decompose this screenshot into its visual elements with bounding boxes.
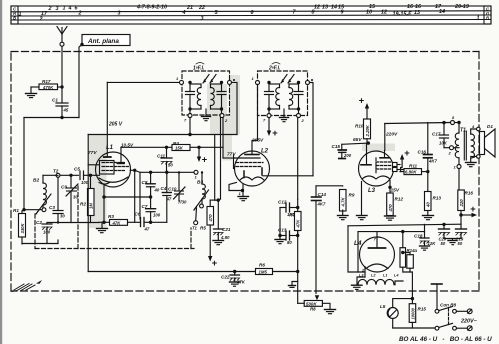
svg-text:C17: C17 bbox=[432, 132, 441, 137]
svg-text:470: 470 bbox=[388, 204, 393, 213]
resistor R11 bbox=[400, 164, 428, 175]
svg-text:1ᵉF.I.: 1ᵉF.I. bbox=[193, 66, 204, 72]
svg-text:100: 100 bbox=[81, 180, 89, 185]
capacitor C6 (series) bbox=[135, 212, 151, 232]
gray inside 1st IF right half bbox=[207, 84, 227, 116]
dial strip numbers row2 bbox=[19, 9, 446, 17]
grid box bbox=[100, 161, 115, 175]
speaker D1 bbox=[471, 124, 495, 159]
svg-text:14: 14 bbox=[439, 9, 445, 15]
wire antenna bus to left bbox=[24, 116, 79, 210]
svg-text:B2: B2 bbox=[33, 178, 39, 184]
IF1 internal ground bbox=[202, 109, 211, 121]
resistor R7 bbox=[289, 199, 301, 234]
heater ground bbox=[352, 285, 363, 289]
svg-text:7: 7 bbox=[184, 118, 187, 123]
cathode bbox=[362, 176, 390, 179]
IF1 terminal 2 bbox=[220, 114, 228, 124]
wave switch on B2 bbox=[36, 194, 51, 214]
resistor R4 bbox=[172, 141, 190, 151]
svg-text:R6: R6 bbox=[259, 263, 265, 268]
svg-text:R11: R11 bbox=[409, 164, 418, 169]
terminal 2 (output) bbox=[448, 146, 460, 156]
C18 ground bbox=[420, 246, 430, 250]
IF2 terminal 7 bbox=[263, 114, 271, 123]
B+ arrow right bbox=[461, 204, 477, 217]
L3 cathode ground bbox=[357, 216, 368, 220]
terminal T2 bbox=[53, 169, 60, 178]
svg-text:+: + bbox=[212, 258, 218, 269]
svg-text:470: 470 bbox=[208, 214, 213, 223]
svg-text:45: 45 bbox=[63, 108, 69, 113]
capacitor C15 bbox=[332, 144, 352, 159]
svg-text:30: 30 bbox=[60, 214, 65, 219]
svg-text:Ant. plana: Ant. plana bbox=[87, 38, 119, 45]
capacitor C20 bbox=[439, 224, 450, 246]
switch on B3 bbox=[194, 190, 209, 210]
wire L2 diode pin to x313 bbox=[263, 175, 313, 177]
resistor R3 bbox=[105, 214, 141, 225]
svg-text:10: 10 bbox=[366, 9, 372, 15]
svg-text:65V: 65V bbox=[353, 137, 362, 143]
svg-text:R9: R9 bbox=[349, 193, 355, 198]
svg-text:9: 9 bbox=[341, 9, 344, 15]
dial strip numbers row1 bbox=[48, 4, 469, 12]
svg-text:470K: 470K bbox=[42, 85, 54, 90]
svg-text:10K: 10K bbox=[439, 141, 448, 146]
svg-text:2: 2 bbox=[39, 16, 43, 22]
svg-text:2: 2 bbox=[78, 11, 82, 17]
svg-text:330K: 330K bbox=[20, 223, 25, 234]
svg-text:40: 40 bbox=[154, 188, 160, 193]
terminal T1 bbox=[192, 208, 198, 231]
svg-text:4.7K: 4.7K bbox=[341, 197, 346, 208]
grids bbox=[102, 163, 129, 171]
IF1 primary coil bbox=[190, 84, 201, 109]
svg-text:C3: C3 bbox=[49, 205, 55, 210]
wire IF2-8 down to L2 bbox=[310, 83, 314, 176]
svg-text:50: 50 bbox=[441, 241, 446, 246]
node wire R7 bottom down bbox=[296, 231, 299, 304]
C21 ground bbox=[213, 241, 224, 245]
L2 cathode ground bbox=[238, 197, 249, 201]
capacitor C21 bbox=[214, 200, 231, 240]
gray strip around L1 stage bbox=[89, 134, 107, 228]
IF transformer T-IF1 box bbox=[182, 63, 230, 116]
svg-text:1: 1 bbox=[63, 6, 66, 12]
capacitor C12 bbox=[278, 200, 299, 218]
plate bbox=[245, 154, 259, 156]
bottom electrode marks bbox=[243, 171, 245, 178]
svg-text:L4: L4 bbox=[394, 274, 399, 278]
svg-text:80: 80 bbox=[287, 240, 292, 245]
dashed gang linkage bbox=[35, 186, 194, 249]
IF2 trimmer arrows bbox=[281, 75, 294, 84]
wire IF2 terminal1 to L2 plate bbox=[252, 85, 258, 152]
IF transformer T-IF2 box bbox=[258, 63, 308, 116]
mains terminal top bbox=[467, 309, 472, 314]
switch gang dashed link bbox=[448, 309, 450, 327]
svg-text:7/30: 7/30 bbox=[178, 200, 187, 205]
mains terminal bottom bbox=[467, 326, 472, 331]
svg-text:L2: L2 bbox=[371, 274, 376, 278]
svg-text:C5: C5 bbox=[74, 167, 80, 172]
svg-text:8: 8 bbox=[452, 115, 455, 120]
dial strip numbers row3 bbox=[39, 16, 480, 23]
svg-text:R17: R17 bbox=[42, 79, 51, 84]
svg-text:C15: C15 bbox=[332, 144, 341, 149]
svg-text:10000: 10000 bbox=[410, 307, 415, 319]
IF1 terminal 8 bbox=[228, 79, 236, 84]
svg-text:B: B bbox=[486, 15, 489, 20]
wire IF2-2 down to detector load bbox=[297, 118, 299, 200]
svg-text:R5: R5 bbox=[200, 226, 206, 231]
svg-text:+: + bbox=[272, 128, 278, 139]
svg-text:R8: R8 bbox=[310, 307, 316, 312]
wire L1 right pin down bbox=[134, 170, 136, 222]
svg-text:L1: L1 bbox=[106, 145, 114, 151]
svg-text:6.80K: 6.80K bbox=[405, 170, 417, 175]
svg-text:L5: L5 bbox=[380, 304, 386, 309]
electrodes bbox=[361, 164, 371, 166]
ground (R17) bbox=[26, 94, 37, 98]
resistor R6 bbox=[256, 263, 273, 275]
AVC bottom wire bbox=[88, 270, 298, 273]
svg-text:4: 4 bbox=[471, 124, 475, 129]
wire L4 box left bbox=[358, 232, 377, 272]
svg-text:R15: R15 bbox=[418, 307, 427, 312]
signature squiggle bbox=[12, 280, 42, 292]
svg-text:47: 47 bbox=[166, 197, 172, 202]
resistor R12 bbox=[387, 193, 404, 216]
cathode bbox=[99, 177, 128, 182]
IF2 internal ground bbox=[280, 109, 289, 122]
resistor R14a bbox=[401, 251, 413, 299]
C22 ground bbox=[230, 282, 241, 286]
svg-text:4-7-8-9-2-10: 4-7-8-9-2-10 bbox=[136, 5, 167, 11]
svg-text:2: 2 bbox=[448, 151, 452, 156]
svg-text:2: 2 bbox=[48, 6, 52, 12]
svg-text:1: 1 bbox=[176, 76, 179, 81]
svg-text:16: 16 bbox=[407, 4, 414, 10]
IF2 secondary coil bbox=[289, 84, 299, 109]
resistor R14 bbox=[400, 232, 418, 268]
R8 ground bbox=[325, 310, 336, 314]
tube L3 bbox=[359, 151, 405, 216]
svg-text:+: + bbox=[470, 204, 476, 215]
svg-text:19-15-F: 19-15-F bbox=[393, 12, 413, 18]
terminal 8 (output) bbox=[451, 115, 460, 125]
IF2 primary capacitor bbox=[265, 81, 274, 114]
svg-text:R2: R2 bbox=[80, 202, 86, 207]
svg-text:C1: C1 bbox=[52, 98, 58, 103]
capacitor C16 bbox=[418, 123, 438, 192]
capacitor C18 bbox=[414, 224, 436, 246]
svg-text:100: 100 bbox=[43, 230, 51, 235]
svg-text:1: 1 bbox=[477, 16, 480, 22]
svg-text:B: B bbox=[13, 15, 16, 20]
svg-text:13: 13 bbox=[322, 4, 328, 10]
capacitor C5 (grid coupling) bbox=[69, 167, 95, 186]
wire L4 plate top bbox=[377, 230, 425, 238]
IF1 primary capacitor bbox=[186, 81, 195, 114]
resistor R15 bbox=[409, 304, 426, 328]
IF1 feed wire from top right bbox=[232, 82, 238, 134]
svg-text:1M5: 1M5 bbox=[259, 270, 268, 275]
tube L2 bbox=[227, 149, 270, 197]
capacitor C1 bbox=[52, 86, 69, 118]
svg-text:R10: R10 bbox=[355, 124, 364, 129]
IF2 secondary capacitor bbox=[294, 81, 303, 114]
diode plates bbox=[393, 163, 398, 167]
wire 220V rail bbox=[385, 121, 461, 151]
svg-text:1: 1 bbox=[252, 76, 255, 81]
switch bottom pole bbox=[393, 323, 467, 330]
IF1 secondary coil bbox=[211, 84, 222, 109]
coil B2 bbox=[33, 175, 58, 211]
svg-text:2: 2 bbox=[301, 118, 305, 123]
svg-text:13: 13 bbox=[414, 10, 420, 16]
grids bbox=[235, 157, 260, 159]
capacitor C17 bbox=[432, 123, 450, 148]
svg-text:12K: 12K bbox=[428, 241, 437, 246]
svg-text:1: 1 bbox=[239, 191, 242, 196]
resistor R10 bbox=[355, 119, 371, 143]
resistor R2 bbox=[80, 175, 94, 222]
B+ arrow above R10 bbox=[359, 96, 370, 120]
C13 ground bbox=[275, 240, 285, 244]
svg-text:220V~: 220V~ bbox=[460, 319, 478, 325]
wire from Ant. plana down bbox=[79, 45, 82, 118]
svg-text:4: 4 bbox=[182, 10, 186, 16]
svg-text:L3: L3 bbox=[368, 188, 376, 194]
terminal 1 (below T1) bbox=[454, 165, 462, 191]
svg-text:C9: C9 bbox=[61, 185, 67, 190]
L1 cathode ground bbox=[97, 221, 108, 233]
svg-text:R1: R1 bbox=[13, 208, 19, 213]
svg-text:47: 47 bbox=[144, 227, 150, 232]
svg-text:+: + bbox=[202, 155, 208, 166]
switch (Con R8) top pole bbox=[435, 303, 467, 314]
heater chain bbox=[357, 272, 403, 285]
svg-text:40: 40 bbox=[426, 202, 431, 208]
svg-text:R16: R16 bbox=[465, 191, 474, 196]
capacitor C19 bbox=[456, 224, 467, 246]
tube L1 bbox=[88, 143, 136, 223]
B+ arrow near R11 bbox=[400, 148, 410, 172]
oscillator top rail bbox=[135, 170, 198, 219]
bottom pins bbox=[361, 182, 363, 216]
gray below 1st IF bbox=[210, 116, 239, 135]
svg-text:205 V: 205 V bbox=[108, 122, 123, 128]
transformer T1 bbox=[455, 123, 476, 165]
svg-text:D1: D1 bbox=[487, 124, 493, 129]
tube L4 bbox=[354, 237, 395, 273]
chassis stub on R7 line bbox=[289, 282, 298, 288]
Ant. plana label box bbox=[80, 35, 130, 47]
IF1 secondary capacitor bbox=[217, 81, 226, 114]
T1 secondary ground bbox=[466, 163, 477, 167]
trimmer C9 bbox=[61, 175, 78, 222]
wire T2 to C5 bbox=[60, 174, 79, 176]
capacitor C8 bbox=[142, 172, 160, 197]
svg-text:220: 220 bbox=[459, 199, 464, 208]
IF1 terminal 1 bbox=[176, 76, 184, 84]
wire detector to volume pot bbox=[315, 201, 317, 294]
resistor R16 bbox=[458, 190, 474, 224]
svg-text:R12: R12 bbox=[395, 197, 404, 202]
node L5 junction bbox=[393, 297, 414, 308]
capacitor C2 bbox=[36, 220, 52, 244]
pilot lamp L5 bbox=[380, 304, 398, 328]
svg-text:47K: 47K bbox=[296, 219, 301, 229]
trimmer C10 bbox=[168, 171, 187, 204]
svg-text:1: 1 bbox=[454, 165, 457, 170]
IF2 terminal 1 bbox=[252, 76, 260, 85]
antenna bbox=[57, 27, 67, 87]
svg-text:4K7: 4K7 bbox=[317, 202, 326, 207]
cathode bbox=[240, 177, 264, 180]
capacitor C14 bbox=[312, 186, 327, 207]
resistor R13 bbox=[425, 192, 442, 216]
svg-text:C2: C2 bbox=[36, 220, 42, 225]
R12 ground bbox=[385, 216, 396, 220]
svg-text:Con R8: Con R8 bbox=[440, 303, 457, 308]
IF2 B+ arrow at terminal 7 bbox=[251, 118, 278, 144]
IF2 terminal 8 bbox=[306, 79, 314, 85]
gray column to L2 grid bbox=[223, 135, 233, 161]
svg-text:77V: 77V bbox=[227, 152, 236, 158]
svg-text:22: 22 bbox=[198, 5, 205, 11]
svg-text:21: 21 bbox=[186, 5, 193, 11]
gray band above L3 bbox=[362, 144, 395, 152]
wire IF1-2 to L2 grid bbox=[218, 118, 235, 201]
resistor R17 bbox=[31, 79, 64, 93]
capacitor C22 bbox=[221, 272, 246, 285]
capacitor C7 bbox=[142, 197, 161, 224]
pot R8 bbox=[298, 295, 330, 311]
wire L1 plate to IF1 bbox=[107, 81, 180, 83]
svg-text:1: 1 bbox=[19, 11, 22, 17]
svg-text:50: 50 bbox=[168, 163, 173, 168]
svg-text:220V: 220V bbox=[385, 132, 398, 138]
svg-text:1M: 1M bbox=[89, 203, 94, 209]
svg-text:15K: 15K bbox=[175, 146, 184, 151]
svg-text:C4: C4 bbox=[161, 186, 167, 191]
svg-text:R3: R3 bbox=[108, 214, 114, 219]
filter cap / B-minus wire bbox=[348, 223, 461, 272]
capacitor C13 bbox=[278, 228, 298, 246]
svg-text:4K7: 4K7 bbox=[428, 159, 437, 164]
B+ arrow at x199 bbox=[197, 147, 208, 165]
R9 ground bbox=[338, 216, 349, 220]
svg-text:77V: 77V bbox=[88, 150, 97, 156]
svg-text:100: 100 bbox=[153, 213, 161, 218]
svg-text:BO AL 46 - U - BO - AL 66: BO AL 46 - U - BO - AL 66 - U bbox=[399, 336, 492, 343]
svg-text:3: 3 bbox=[118, 10, 121, 16]
IF2 primary coil bbox=[269, 84, 280, 109]
svg-text:7: 7 bbox=[263, 118, 266, 123]
svg-text:4.80: 4.80 bbox=[220, 235, 230, 240]
capacitor C3 bbox=[49, 177, 65, 222]
left scan edge bbox=[0, 0, 2, 344]
bottom pins bbox=[242, 184, 244, 196]
svg-text:200: 200 bbox=[343, 153, 352, 158]
wire screen rail y147.3 bbox=[121, 146, 223, 202]
wire 65V rail bbox=[342, 137, 370, 151]
svg-text:2ᵉF.I.: 2ᵉF.I. bbox=[268, 66, 280, 72]
svg-text:47K: 47K bbox=[112, 220, 122, 225]
resistor R1 bbox=[13, 208, 42, 244]
svg-text:L1: L1 bbox=[383, 274, 387, 278]
wire rail y222.5 bbox=[22, 221, 99, 243]
svg-text:50: 50 bbox=[458, 241, 463, 246]
svg-text:20-19: 20-19 bbox=[454, 4, 469, 10]
capacitor C11 bbox=[157, 147, 173, 173]
wire W1 bus bbox=[88, 118, 237, 272]
svg-text:T1: T1 bbox=[192, 226, 198, 231]
svg-text:3: 3 bbox=[56, 6, 59, 12]
oscillator coil B3 bbox=[197, 171, 205, 205]
resistor R5 bbox=[200, 200, 218, 230]
svg-text:+: + bbox=[404, 148, 410, 159]
svg-text:2.20K: 2.20K bbox=[365, 124, 370, 137]
IF2 terminal 2 bbox=[297, 114, 305, 124]
svg-text:L2: L2 bbox=[261, 149, 269, 155]
svg-text:14: 14 bbox=[331, 4, 337, 10]
svg-text:12: 12 bbox=[314, 4, 320, 10]
R13 ground bbox=[423, 216, 434, 220]
wire L1 cathode to C8 node bbox=[102, 195, 152, 198]
C19/C20 ground bbox=[444, 237, 461, 245]
B+ arrow below R5 bbox=[208, 225, 218, 269]
svg-text:T1: T1 bbox=[460, 128, 466, 134]
svg-text:8: 8 bbox=[312, 10, 315, 16]
svg-text:C22: C22 bbox=[221, 275, 230, 280]
IF1 trimmer arrows bbox=[203, 75, 216, 84]
node 205V wire to L1 top bbox=[107, 82, 122, 157]
resistor R9 bbox=[316, 186, 355, 215]
svg-text:12: 12 bbox=[381, 9, 387, 15]
dial strip letters bbox=[13, 7, 490, 21]
svg-text:4: 4 bbox=[68, 6, 72, 12]
chassis bar above switch bbox=[432, 284, 443, 310]
main dashed border bbox=[11, 52, 479, 292]
bottom pins bbox=[103, 185, 105, 223]
capacitor C4 bbox=[151, 171, 172, 223]
IF1 terminal 7 bbox=[184, 114, 192, 123]
svg-text:3: 3 bbox=[201, 16, 204, 22]
svg-text:R13: R13 bbox=[433, 196, 442, 201]
svg-text:+: + bbox=[359, 96, 365, 107]
C12/C13 left bus bbox=[278, 208, 281, 240]
dial strip frame bbox=[11, 6, 491, 24]
svg-text:1: 1 bbox=[195, 175, 198, 180]
plate bar bbox=[104, 156, 111, 158]
